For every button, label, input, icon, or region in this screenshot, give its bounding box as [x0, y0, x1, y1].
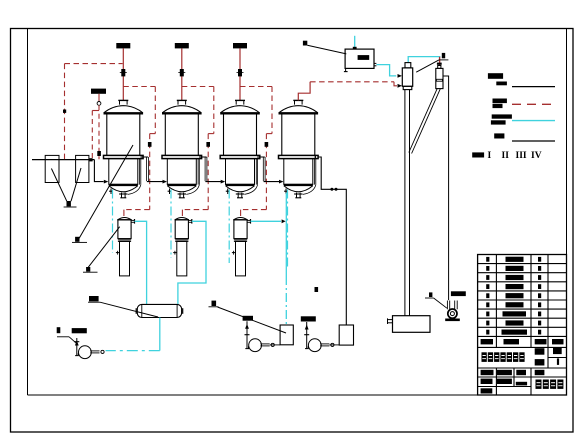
pump P3 label: [301, 316, 316, 321]
red line from tag to feed (with instrument bubble): [92, 94, 101, 160]
evaporator III tube sheet: [226, 184, 255, 186]
vacuum pump P4 base: [445, 319, 460, 322]
evaporator IV separator shell: [282, 114, 315, 156]
condensate pot 1 upper body: [118, 220, 131, 239]
vapor tag label above evaporator III: [233, 43, 247, 48]
main steam line (red dashed): [65, 63, 123, 65]
cooler label text blob: [358, 55, 370, 60]
feed tank T1: [45, 155, 59, 182]
condensate collection tank: [136, 304, 183, 317]
arrow pot3 line junction: [282, 219, 286, 223]
condensate drain (cyan) below evaporator III: [228, 190, 230, 264]
evaporator IV bottom outlet nozzle: [294, 193, 302, 198]
evaporator II heating chamber: [167, 159, 196, 185]
evaporator IV tube sheet: [284, 184, 313, 186]
hot well base tank: [393, 316, 431, 333]
condensate line effect IV down (cyan): [285, 193, 287, 325]
tick at cooler inlet: [353, 47, 357, 50]
hot well overflow ticks: [388, 318, 393, 324]
liquor transfer pipe III to next effect: [257, 157, 280, 182]
evaporator III circulation riser: [245, 159, 258, 195]
tag label L3 (condensate pot): [83, 267, 98, 272]
pump P2 discharge to seal pot A: [270, 344, 280, 346]
evaporator II dished bottom: [167, 186, 196, 192]
cooler / preheater box: [345, 49, 374, 68]
vapor trap tail pipe: [409, 89, 441, 154]
condenser bottom flange: [403, 86, 412, 89]
tag label L1 (feed tanks): [64, 201, 77, 207]
condensate pot 3 upper body: [234, 220, 247, 239]
border frame inner left margin line: [27, 29, 29, 396]
label tag LT-A: [91, 89, 106, 94]
evaporator II top nozzle: [177, 100, 187, 104]
red tick at battery limit: [439, 57, 441, 66]
feed line from battery limit: [32, 159, 94, 161]
vapor trap body: [436, 68, 443, 88]
legend item 2 label: [493, 99, 507, 109]
legend black line sample 2: [512, 140, 555, 142]
seal pot A: [280, 325, 293, 345]
steam branch down-left (red dashed): [64, 64, 66, 160]
liquor transfer pipe II to next effect: [199, 157, 222, 182]
evaporator III separator shell: [224, 114, 257, 156]
title block row D: [481, 388, 493, 393]
condensate pot 2 lower body: [177, 241, 187, 276]
svg-text:III: III: [516, 151, 527, 161]
vapor trap tick: [437, 63, 442, 65]
evaporator IV drain stub: [284, 189, 288, 195]
condensate pot 2 side stub: [173, 251, 177, 255]
evaporator I heating chamber: [109, 159, 138, 185]
barometric condenser body: [402, 68, 412, 86]
feed pipe down to first effect: [94, 160, 103, 182]
barometric condenser neck: [405, 63, 411, 68]
evaporator I separator shell: [107, 114, 140, 156]
vapor line (red) evaporator I: [122, 48, 124, 101]
condensate drain (cyan) below evaporator II: [170, 190, 172, 259]
gate valve on red dropleg: [97, 151, 101, 156]
seal tank B: [339, 325, 353, 345]
evaporator IV flange band: [279, 155, 319, 158]
condensate pot 2 upper body: [175, 220, 188, 239]
evaporator IV circulation riser: [303, 159, 316, 195]
flange dots on product pipe: [330, 188, 337, 191]
seal pot A leader line: [218, 307, 287, 333]
evaporator IV dome head: [279, 106, 319, 114]
condensate pot 3 outlet nozzle: [247, 219, 250, 224]
cooling water supply top (cyan): [408, 57, 440, 63]
svg-text:IV: IV: [531, 151, 542, 161]
condensate pot 3 lower body: [236, 241, 246, 276]
legend item 3 label: [491, 114, 512, 124]
leader from tank T2: [71, 168, 81, 201]
cyan line pot 3 to effect IV drain: [251, 220, 282, 222]
evaporator II separator shell: [165, 114, 198, 156]
svg-text:I: I: [488, 151, 492, 161]
legend effects key: [472, 151, 541, 161]
vacuum pump P4 tag: [425, 292, 447, 308]
evaporator I tube sheet: [109, 184, 138, 186]
legend red dashed sample: [512, 103, 555, 105]
condensate pot 1 lower body: [120, 241, 130, 276]
vapor line effect IV to condenser (red): [298, 82, 397, 101]
feed arrow into evaporator I: [104, 180, 109, 184]
vapor branch pipe (red dashed) effect I: [123, 87, 155, 217]
vacuum pump suction line: [443, 76, 449, 300]
condensate pot 1 cap: [117, 218, 131, 220]
evaporator II circulation riser: [186, 159, 199, 195]
condensate pot 3 cap: [233, 218, 247, 220]
leader to condensate pot 1: [88, 227, 119, 268]
vacuum pump P4 ports: [447, 301, 457, 310]
title block row A: [481, 339, 564, 344]
evaporator I top nozzle: [118, 100, 128, 104]
title block row B: [481, 370, 545, 375]
border frame inner bottom line: [28, 394, 567, 396]
title block revision rows: [486, 257, 541, 335]
evaporator IV heating chamber: [284, 159, 313, 185]
product outlet pipe from effect IV: [315, 155, 346, 325]
vacuum pump P4 body: [448, 309, 457, 318]
vapor line (red) evaporator III: [239, 48, 241, 101]
condensate pot 1 outlet nozzle: [131, 219, 134, 224]
label tick near product pipe: [315, 287, 319, 292]
vapor branch pipe (red dashed) effect II: [182, 87, 214, 217]
cyan line pot 1 to condensate tank: [135, 221, 147, 304]
valve on condensate dropleg II: [206, 142, 210, 147]
valve on vapor line I: [120, 69, 127, 76]
junction fitting on feed line: [89, 158, 92, 161]
barometric tail pipe: [405, 90, 410, 316]
evaporator III drain stub: [226, 189, 230, 195]
transfer arrow into next effect: [221, 180, 226, 184]
arrow into condenser (steam): [398, 84, 403, 88]
drawing title text (four-effect evaporation flowsheet): [482, 352, 525, 362]
feed tank T2: [76, 155, 89, 182]
transfer arrow into next effect: [163, 180, 168, 184]
vapor trap neck: [438, 66, 441, 69]
legend item 1 label: [488, 73, 507, 85]
battery limit tag: [439, 53, 449, 60]
evaporator II tube sheet: [167, 184, 196, 186]
evaporator II bottom outlet nozzle: [178, 193, 186, 198]
svg-text:II: II: [502, 151, 510, 161]
valve on condensate dropleg III: [265, 142, 269, 147]
vapor trap flange band: [436, 79, 442, 81]
condensate pot 2 flange: [175, 240, 188, 242]
tag label L2 (evaporator I): [72, 237, 87, 243]
valve tick on left steam branch: [63, 110, 66, 113]
condensate tank label: [88, 296, 100, 302]
evaporator III dome head: [220, 106, 260, 114]
cyan line pot 2 to condensate tank: [178, 221, 206, 304]
condensate pot 2 outlet nozzle: [188, 219, 191, 224]
condensate pot 2 cap: [175, 218, 189, 220]
evaporator I bottom outlet nozzle: [119, 193, 127, 198]
vapor tag label above evaporator I: [116, 43, 130, 48]
liquor transfer pipe I to next effect: [141, 157, 164, 182]
evaporator II drain stub: [168, 189, 172, 195]
cooler drain tick: [344, 68, 348, 71]
cooler outlet nozzle: [374, 63, 376, 65]
seal pot A label: [209, 301, 219, 307]
condensate pot 1 flange: [118, 240, 131, 242]
title block row C: [481, 379, 527, 386]
legend item 4 label: [494, 133, 504, 138]
valve on vapor line III: [237, 69, 244, 76]
vapor line (red) evaporator II: [181, 48, 183, 101]
valve on condensate dropleg I: [148, 142, 152, 147]
condensate pot 1 side stub: [116, 251, 120, 255]
transfer arrow into next effect: [279, 180, 284, 184]
vapor branch pipe (red dashed) effect III: [240, 87, 272, 217]
evaporator III flange band: [220, 155, 260, 158]
evaporator III heating chamber: [226, 159, 255, 185]
leader from tank T1: [51, 169, 66, 202]
legend cyan line sample: [512, 120, 555, 122]
valve on vapor line II: [178, 69, 185, 76]
border frame inner right line: [566, 29, 568, 396]
cooler leader line: [307, 45, 346, 54]
condensate drain (cyan) below evaporator IV: [287, 190, 289, 269]
condensate drain (cyan) below evaporator I: [112, 190, 114, 254]
evaporator IV top nozzle: [293, 100, 303, 104]
leader to evaporator I: [77, 145, 133, 242]
pump P3: [304, 322, 334, 352]
title block scale cells: [535, 348, 562, 366]
pump P2 label: [243, 316, 253, 321]
vapor tag label above evaporator II: [175, 43, 189, 48]
cooling water to condenser (cyan): [376, 65, 396, 76]
pump P1 label: [57, 327, 87, 344]
evaporator I dome head: [104, 106, 144, 114]
vacuum pump P4 label: [451, 291, 466, 296]
condensate pot 3 flange: [234, 240, 247, 242]
evaporator I dished bottom: [109, 186, 138, 192]
condensate pot 3 side stub: [232, 251, 236, 255]
evaporator III top nozzle: [235, 100, 245, 104]
arrow into condenser (water): [398, 74, 403, 78]
evaporator III bottom outlet nozzle: [236, 193, 244, 198]
tank outlet down (cyan): [159, 318, 161, 351]
university name text: [536, 380, 564, 389]
evaporator II flange band: [162, 155, 202, 158]
suction line to pump P1 (cyan dash-dot): [106, 350, 160, 352]
pump P2: [245, 321, 275, 351]
legend black line sample 1: [512, 86, 555, 88]
pump P3 discharge to seal tank B: [330, 344, 340, 346]
evaporator III dished bottom: [226, 186, 255, 192]
evaporator I drain stub: [109, 189, 113, 195]
evaporator IV dished bottom: [284, 186, 313, 192]
cooler tag label: [303, 41, 307, 46]
evaporator II dome head: [162, 106, 202, 114]
title block grid: [478, 255, 567, 396]
evaporator I flange band: [104, 155, 144, 158]
pump P1 (condensate pump): [74, 338, 104, 359]
evaporator I circulation riser: [128, 159, 141, 195]
condenser tag leader: [416, 60, 439, 72]
condensate tank leader line: [100, 302, 158, 317]
cooling water inlet (cyan): [354, 36, 356, 49]
